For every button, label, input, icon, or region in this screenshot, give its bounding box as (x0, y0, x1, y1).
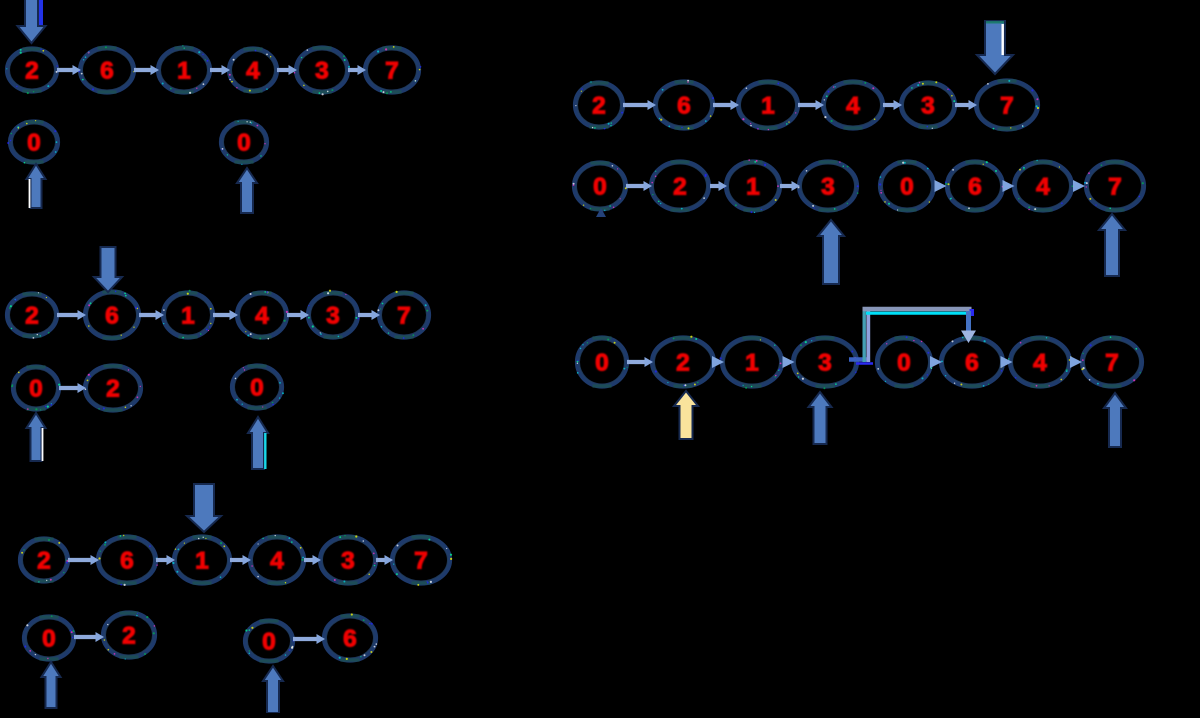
elbow wire from node G4 (3) over to node G6 (6) (849, 309, 976, 364)
node D6 value 7 (976, 80, 1039, 130)
svg-text:3: 3 (341, 548, 355, 575)
node C5 value 3 (320, 535, 378, 584)
node E3 value 1 (724, 159, 780, 213)
wire link A4-A5 (277, 65, 297, 75)
svg-text:2: 2 (122, 623, 136, 650)
node F1 value 0 (879, 162, 934, 211)
svg-text:3: 3 (821, 174, 835, 201)
node C10 value 6 (324, 613, 377, 660)
node B7 value 0 (11, 367, 60, 411)
wire link G2-G3 (712, 356, 724, 368)
node A7 value 0 (7, 120, 58, 164)
node A5 value 3 (294, 48, 350, 96)
node F3 value 4 (1014, 160, 1073, 211)
svg-text:0: 0 (897, 350, 911, 377)
node B6 value 7 (377, 291, 429, 339)
wire link B4-B5 (287, 310, 309, 320)
svg-text:4: 4 (246, 58, 260, 85)
wire link B2-B3 (139, 310, 164, 320)
wire link C7-C8 (74, 632, 104, 642)
node C7 value 0 (24, 615, 75, 659)
svg-text:2: 2 (673, 174, 687, 201)
wire link E3-E4 (780, 181, 800, 191)
svg-text:6: 6 (105, 303, 119, 330)
wire link F1-F2 (935, 180, 947, 192)
odd list pointer up arrow under A7 (27, 164, 46, 208)
wire link C3-C4 (230, 555, 251, 565)
wire link F3-F4 (1073, 180, 1085, 192)
svg-text:6: 6 (965, 350, 979, 377)
node G8 value 7 (1081, 336, 1142, 386)
node C2 value 6 (98, 535, 158, 586)
svg-text:6: 6 (343, 626, 357, 653)
svg-text:4: 4 (270, 548, 284, 575)
svg-text:7: 7 (1108, 174, 1122, 201)
node B9 value 0 (232, 366, 284, 409)
svg-text:2: 2 (37, 548, 51, 575)
node E1 value 0 (573, 163, 627, 212)
even list pointer up arrow under C9 (263, 666, 283, 713)
wire link A5-A6 (348, 65, 366, 75)
svg-text:0: 0 (250, 375, 264, 402)
node C6 value 7 (392, 537, 452, 586)
current pointer big down arrow (step 2, over node B2) (94, 247, 122, 292)
node B1 value 2 (7, 292, 57, 339)
svg-text:7: 7 (397, 303, 411, 330)
node G3 value 1 (720, 338, 783, 389)
svg-text:6: 6 (677, 93, 691, 120)
svg-text:1: 1 (761, 93, 775, 120)
svg-text:4: 4 (1036, 174, 1050, 201)
wire link G5-G6 (930, 356, 942, 368)
svg-text:6: 6 (968, 174, 982, 201)
small marker arrowhead under node E1 (596, 208, 606, 217)
svg-text:0: 0 (262, 629, 276, 656)
svg-text:7: 7 (1105, 350, 1119, 377)
wire link B5-B6 (358, 310, 380, 320)
node D3 value 1 (738, 82, 798, 131)
wire link A2-A3 (134, 65, 159, 75)
svg-text:4: 4 (255, 303, 269, 330)
svg-text:0: 0 (595, 350, 609, 377)
svg-text:3: 3 (921, 93, 935, 120)
svg-text:2: 2 (106, 376, 120, 403)
current pointer big down arrow (step 1, over node A1) (18, 0, 46, 43)
node B8 value 2 (85, 366, 141, 411)
even tail pointer up arrow under F4 (1099, 214, 1125, 276)
node C8 value 2 (103, 613, 155, 660)
wire link C1-C2 (68, 555, 99, 565)
svg-text:6: 6 (100, 58, 114, 85)
node E4 value 3 (798, 161, 859, 210)
node C9 value 0 (245, 621, 294, 662)
node A4 value 4 (229, 49, 277, 92)
wire link B3-B4 (213, 310, 238, 320)
svg-text:2: 2 (592, 93, 606, 120)
head pointer yellow up arrow under G2 (674, 391, 698, 439)
svg-text:7: 7 (414, 548, 428, 575)
node A3 value 1 (158, 45, 210, 94)
svg-text:1: 1 (195, 548, 209, 575)
odd list pointer up arrow under C7 (42, 662, 61, 708)
wire link E1-E2 (626, 181, 652, 191)
wire link G7-G8 (1070, 356, 1082, 368)
wire link C4-C5 (304, 555, 321, 565)
wire link D5-D6 (955, 100, 977, 110)
even list pointer up arrow under B9 (248, 417, 268, 469)
wire link E2-E3 (710, 181, 727, 191)
node D5 value 3 (901, 81, 955, 129)
node C3 value 1 (172, 537, 230, 584)
odd tail pointer up arrow under E4 (818, 220, 844, 284)
even tail up arrow under G8 (1104, 393, 1126, 447)
node B3 value 1 (163, 290, 213, 339)
node A2 value 6 (79, 46, 135, 92)
wire link G1-G2 (627, 357, 653, 367)
svg-text:0: 0 (237, 130, 251, 157)
svg-text:0: 0 (593, 174, 607, 201)
even list pointer up arrow under A8 (237, 168, 257, 213)
node G2 value 2 (650, 336, 715, 387)
svg-text:2: 2 (676, 350, 690, 377)
wire link A1-A2 (57, 65, 81, 75)
node F2 value 6 (945, 161, 1004, 210)
svg-text:1: 1 (181, 303, 195, 330)
svg-text:4: 4 (1033, 350, 1047, 377)
wire link C9-C10 (293, 634, 325, 644)
wire link C5-C6 (376, 555, 393, 565)
wire link D2-D3 (713, 100, 739, 110)
svg-text:3: 3 (818, 350, 832, 377)
wire link G3-G4 (783, 356, 795, 368)
wire link B7-B8 (59, 383, 86, 393)
svg-text:4: 4 (846, 93, 860, 120)
odd tail up arrow under G4 (809, 392, 832, 444)
node B2 value 6 (85, 291, 141, 339)
node A1 value 2 (6, 49, 58, 95)
svg-text:0: 0 (29, 376, 43, 403)
node E2 value 2 (651, 162, 709, 211)
wire link D3-D4 (798, 100, 824, 110)
wire link A3-A4 (210, 65, 230, 75)
current pointer big down arrow (step 4, over node D6) (977, 21, 1013, 74)
svg-text:1: 1 (746, 174, 760, 201)
node G5 value 0 (877, 336, 932, 386)
svg-text:7: 7 (1000, 93, 1014, 120)
node B5 value 3 (308, 290, 359, 338)
node D1 value 2 (575, 81, 623, 129)
node G1 value 0 (577, 338, 628, 387)
wire link G6-G7 (1001, 356, 1013, 368)
node D2 value 6 (655, 80, 714, 130)
wire link F2-F3 (1003, 180, 1015, 192)
svg-text:6: 6 (120, 548, 134, 575)
wire link C2-C3 (156, 555, 175, 565)
node C1 value 2 (20, 539, 69, 583)
node F4 value 7 (1084, 162, 1144, 211)
svg-text:2: 2 (25, 303, 39, 330)
current pointer big down arrow (step 3, over node C3) (187, 484, 221, 532)
svg-text:3: 3 (315, 58, 329, 85)
node A6 value 7 (365, 46, 421, 94)
node A8 value 0 (221, 121, 267, 165)
wire link B1-B2 (57, 310, 86, 320)
node G6 value 6 (941, 337, 1003, 387)
svg-text:0: 0 (27, 130, 41, 157)
svg-text:1: 1 (177, 58, 191, 85)
node C4 value 4 (250, 535, 304, 584)
wire link D4-D5 (883, 100, 902, 110)
svg-text:2: 2 (25, 58, 39, 85)
odd list pointer up arrow under B7 (27, 413, 46, 461)
node B4 value 4 (237, 291, 288, 340)
svg-text:0: 0 (900, 174, 914, 201)
node G4 value 3 (793, 338, 857, 390)
wire link D1-D2 (623, 100, 656, 110)
svg-text:3: 3 (326, 303, 340, 330)
svg-text:0: 0 (42, 626, 56, 653)
node D4 value 4 (823, 82, 884, 129)
node G7 value 4 (1008, 337, 1072, 387)
svg-text:1: 1 (745, 350, 759, 377)
svg-text:7: 7 (385, 58, 399, 85)
